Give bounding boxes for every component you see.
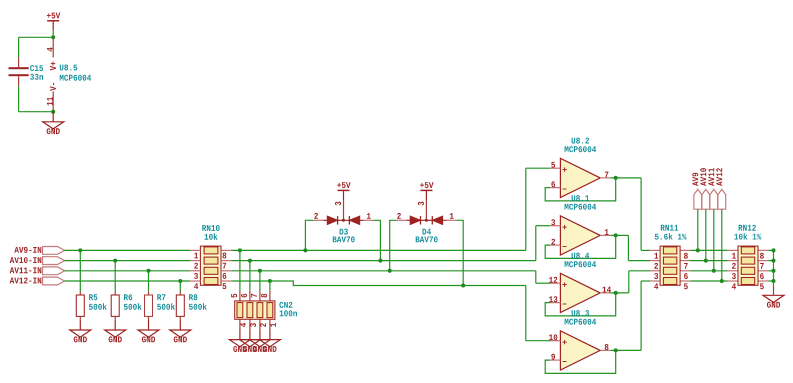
- wire AV10 label to net: [705, 209, 707, 260]
- wire U8.1 feedback loop: [545, 235, 616, 258]
- RN12 pin number 1: [732, 253, 736, 259]
- wire U8.2 output: [610, 178, 650, 251]
- junction CN2 pin 7 tap: [258, 269, 262, 273]
- CN2 pin number 3: [250, 323, 256, 327]
- RN12 pin number 7: [760, 263, 764, 269]
- RN11 pin number 7: [684, 263, 688, 269]
- resistor R6 500k: [111, 292, 119, 320]
- op-amp U8.2 MCP6004: [550, 158, 610, 197]
- RN11 pin number 3: [654, 273, 658, 279]
- resistor network RN11 5.6k 1%: [650, 246, 690, 285]
- op-amp U8.5 power pins (V+ pin 4, V- pin 11): [47, 37, 56, 111]
- wire net AV10-IN (left segment): [64, 260, 190, 262]
- power +5V (U8.5 supply): [47, 13, 60, 31]
- U8.2 pin number 6: [551, 181, 555, 187]
- RN10 pin number 1: [194, 253, 198, 259]
- U8.4 pin number 14: [603, 287, 612, 293]
- label R6 500k: [124, 294, 142, 310]
- wire U8.3 output: [610, 281, 650, 350]
- junction RN12 pin 5: [772, 279, 776, 283]
- wire D3 pin 2 to net: [305, 220, 313, 250]
- net label AV10 (vertical): [700, 168, 709, 209]
- junction CN2 pin 8 tap: [268, 279, 272, 283]
- op-amp U8.3 MCP6004: [550, 331, 610, 370]
- net label AV9-IN: [14, 247, 64, 255]
- wire C15 branch (left loop): [19, 37, 54, 111]
- power +5V: [420, 182, 433, 200]
- ground (CN2 pin 4): [229, 340, 250, 352]
- ground (CN2 pin 2): [249, 340, 270, 352]
- wire U8.2 feedback loop: [545, 178, 616, 201]
- capacitor network CN2 100n: [235, 291, 275, 340]
- net label AV12 (vertical): [716, 168, 725, 209]
- label U8.1 MCP6004: [565, 195, 597, 210]
- U8.4 pin number 12: [549, 277, 557, 283]
- RN11 pin number 6: [684, 273, 688, 279]
- D4 pin number 1: [450, 213, 454, 219]
- wire net AV9 row (RN10 pin 8 to U8.2 input riser): [231, 249, 526, 251]
- U8.4 pin number 13: [549, 296, 557, 302]
- wire down to CN2 pin 7: [259, 271, 261, 291]
- RN11 pin number 2: [654, 263, 658, 269]
- junction D4 pin 2: [388, 269, 392, 273]
- junction U8.1 output/feedback: [614, 233, 618, 237]
- net label AV12-IN: [10, 277, 65, 285]
- wire AV12-IN down to R8: [179, 281, 181, 292]
- wire D3 pin 1 to net: [374, 220, 381, 260]
- wire U8.3 feedback loop: [545, 350, 616, 373]
- label RN11 5.6k 1%: [655, 225, 687, 240]
- ground (CN2 pin 3): [239, 340, 260, 352]
- wire U8.1 output: [610, 235, 650, 260]
- wire net AV12-IN (left segment): [64, 280, 190, 282]
- wire RN12 right pins common: [768, 250, 773, 281]
- wire AV11 label to net: [713, 209, 715, 271]
- RN12 pin number 2: [732, 263, 736, 269]
- label D4 BAV70: [416, 229, 438, 243]
- wire AV12 drop to U8.3 +input: [526, 286, 550, 341]
- junction AV12 tap: [720, 279, 724, 283]
- junction AV12-IN / R8: [178, 279, 182, 283]
- CN2 pin number 2: [260, 323, 266, 327]
- resistor R5 500k: [76, 292, 84, 320]
- power +5V: [337, 182, 350, 200]
- junction U8.2 output/feedback: [614, 176, 618, 180]
- junction D3 pin 2: [303, 248, 307, 252]
- RN11 pin number 8: [684, 253, 688, 259]
- RN12 pin number 6: [760, 273, 764, 279]
- junction AV9-IN / R5: [78, 248, 82, 252]
- D4 pin number 2: [397, 213, 401, 219]
- capacitor C15: [9, 57, 29, 86]
- U8.3 pin number 9: [551, 354, 555, 360]
- D4 pin number 3: [418, 202, 424, 206]
- wire down to CN2 pin 6: [249, 261, 251, 291]
- RN10 pin number 5: [223, 283, 227, 289]
- ground (R7): [138, 320, 159, 343]
- junction AV10-IN / R6: [113, 259, 117, 263]
- label RN10 10k: [202, 225, 219, 240]
- junction CN2 pin 6 tap: [248, 259, 252, 263]
- label U8.2 MCP6004: [565, 138, 597, 153]
- label R8 500k: [189, 294, 207, 310]
- junction bottom supply node: [51, 110, 55, 114]
- net label AV10-IN: [10, 257, 65, 265]
- wire U8.4 output: [610, 271, 650, 293]
- resistor network RN10 10k: [190, 246, 231, 285]
- junction CN2 pin 5 tap: [238, 248, 242, 252]
- resistor R7 500k: [145, 292, 153, 320]
- wire net AV10 (RN11 to RN12): [690, 260, 728, 262]
- op-amp U8.4 MCP6004: [550, 273, 610, 312]
- wire U8.4 feedback loop: [545, 293, 616, 316]
- label D3 BAV70: [333, 229, 355, 243]
- net label AV11-IN: [10, 267, 65, 275]
- D3 pin number 2: [314, 213, 318, 219]
- U8.3 pin number 8: [605, 344, 609, 350]
- U8.1 pin number 1: [605, 229, 609, 235]
- wire +5V to node: [52, 31, 54, 38]
- resistor network RN12 10k 1%: [728, 246, 768, 285]
- RN10 pin number 7: [223, 263, 227, 269]
- junction AV9 tap: [696, 248, 700, 252]
- RN11 pin number 1: [654, 253, 658, 259]
- wire AV10 riser to U8.1 +input: [536, 226, 550, 261]
- junction U8.3 output/feedback: [614, 348, 618, 352]
- wire net AV11 row (RN10 pin 6 to U8.4 input jog): [231, 270, 536, 272]
- ground (RN12): [763, 285, 784, 308]
- wire AV10-IN down to R6: [114, 261, 116, 292]
- label R7 500k: [157, 294, 175, 310]
- label U8.4 MCP6004: [565, 253, 597, 268]
- diode D3 BAV70: [313, 200, 373, 224]
- D3 pin number 3: [335, 202, 341, 206]
- RN10 pin number 2: [194, 263, 198, 269]
- junction AV11-IN / R7: [147, 269, 151, 273]
- wire AV11 jog to U8.4 +input: [536, 271, 550, 283]
- RN10 pin number 6: [223, 273, 227, 279]
- net label AV11 (vertical): [708, 168, 717, 209]
- CN2 pin number 8: [261, 294, 267, 298]
- junction U8.4 output/feedback: [614, 291, 618, 295]
- diode D4 BAV70: [396, 200, 456, 224]
- U8.2 pin number 5: [551, 162, 555, 168]
- junction D4 pin 1: [461, 284, 465, 288]
- RN10 pin number 8: [223, 253, 227, 259]
- wire D4 pin 2 to net: [390, 220, 397, 270]
- label U8.3 MCP6004: [565, 310, 597, 325]
- CN2 pin number 4: [240, 323, 246, 327]
- wire AV9 riser to U8.2 +input: [526, 168, 550, 250]
- RN11 pin number 4: [654, 283, 658, 289]
- ground (R8): [170, 320, 191, 343]
- wire down to CN2 pin 5: [239, 250, 241, 291]
- junction D3 pin 1: [378, 259, 382, 263]
- wire net AV11-IN (left segment): [64, 270, 190, 272]
- ground (R6): [105, 320, 126, 343]
- net label AV9 (vertical): [692, 173, 701, 209]
- wire AV12 label to net: [721, 209, 723, 281]
- RN12 pin number 3: [732, 273, 736, 279]
- junction AV10 tap: [704, 259, 708, 263]
- RN10 pin number 4: [194, 283, 198, 289]
- op-amp U8.1 MCP6004: [550, 216, 610, 255]
- wire net AV11 (RN11 to RN12): [690, 270, 728, 272]
- label U8.5 MCP6004: [60, 65, 91, 81]
- wire net AV10 row (RN10 pin 7 to U8.1 input riser): [231, 260, 536, 262]
- U8.2 pin number 7: [605, 172, 609, 178]
- label CN2 100n: [279, 302, 297, 316]
- CN2 pin number 6: [241, 294, 247, 298]
- CN2 pin number 7: [251, 294, 257, 298]
- junction AV11 tap: [712, 269, 716, 273]
- wire D4 pin 1 to net: [457, 220, 464, 285]
- junction RN12 pin 7: [772, 259, 776, 263]
- label C15 value 33n: [30, 65, 43, 80]
- RN12 pin number 4: [732, 283, 736, 289]
- wire to ground: [773, 281, 775, 285]
- wire AV9-IN down to R5: [79, 250, 81, 291]
- wire AV11-IN down to R7: [148, 271, 150, 292]
- resistor R8 500k: [176, 292, 184, 320]
- wire net AV9-IN (left segment): [64, 249, 190, 251]
- label RN12 10k 1%: [734, 225, 761, 240]
- D3 pin number 1: [367, 213, 371, 219]
- wire down to CN2 pin 8: [269, 281, 271, 291]
- ground (R5): [70, 320, 91, 343]
- ground (CN2 pin 1): [259, 340, 280, 352]
- ground (U8.5): [43, 112, 64, 135]
- junction RN12 pin 6: [772, 269, 776, 273]
- CN2 pin number 1: [270, 323, 276, 327]
- junction top supply node: [51, 35, 55, 39]
- junction RN12 pin 8: [772, 248, 776, 252]
- RN11 pin number 5: [684, 283, 688, 289]
- RN10 pin number 3: [194, 273, 198, 279]
- U8.1 pin number 3: [551, 219, 555, 225]
- wire AV9 label to net: [697, 209, 699, 250]
- RN12 pin number 5: [760, 283, 764, 289]
- wire net AV12 (RN11 to RN12): [690, 280, 728, 282]
- label R5 500k: [89, 294, 107, 310]
- wire net AV12 row with step jog: [231, 281, 526, 286]
- U8.1 pin number 2: [551, 239, 555, 245]
- U8.3 pin number 10: [549, 334, 557, 340]
- RN12 pin number 8: [760, 253, 764, 259]
- wire net AV9 (RN11 to RN12): [690, 249, 728, 251]
- CN2 pin number 5: [231, 294, 237, 298]
